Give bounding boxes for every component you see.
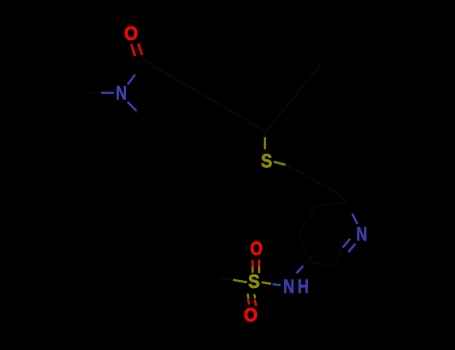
double bond C2=N line outer xyxy=(348,244,355,253)
bond N to lower-right methyl (blue half) xyxy=(128,102,137,111)
svg-text:O: O xyxy=(124,23,138,45)
S=O bottom double bond line 2 olive half xyxy=(254,294,255,298)
svg-text:N: N xyxy=(356,224,367,246)
svg-text:S: S xyxy=(261,150,272,172)
svg-text:N: N xyxy=(116,83,127,105)
bond N to left methyl (blue half) xyxy=(101,92,114,94)
bond S to methyl olive half xyxy=(233,280,247,282)
wire ghost S-CH2 to ring xyxy=(286,165,346,202)
wire ghost methyl stub halves xyxy=(88,93,314,266)
svg-text:H: H xyxy=(298,276,309,298)
C=O double bond line 1 xyxy=(131,44,135,56)
bond S up to CH2 (olive half) xyxy=(264,137,266,149)
wire ghost chain carbonyl-to-S vertex xyxy=(140,58,266,132)
bond NH to ring C3 (blue half) xyxy=(296,266,303,273)
S=O top double bond line 1 red half xyxy=(251,260,253,267)
C=O double bond line 2 xyxy=(138,44,142,56)
wire ghost chain S-vertex up-right xyxy=(266,64,321,132)
bond ring C4 to N (blue half, single) xyxy=(352,214,357,224)
svg-text:N: N xyxy=(283,276,294,298)
bond S to NH olive half xyxy=(262,282,272,284)
S=O bottom double bond line 1 red half xyxy=(248,299,249,305)
svg-text:O: O xyxy=(250,238,262,260)
bond S to NH blue half xyxy=(273,284,281,285)
S=O bottom double bond line 1 olive half xyxy=(246,294,249,299)
S=O bottom double bond line 2 red half xyxy=(255,300,256,306)
svg-text:O: O xyxy=(244,304,258,326)
svg-text:S: S xyxy=(248,271,260,293)
S=O top double bond line 2 red half xyxy=(258,260,260,267)
wire ghost S-methyl halves xyxy=(220,129,265,280)
wire ghost pyridine ring carbons xyxy=(298,203,347,267)
S=O top double bond line 1 olive half xyxy=(251,266,253,273)
double bond C2=N line inner xyxy=(343,239,350,248)
S=O top double bond line 2 olive half xyxy=(258,267,260,274)
bond S right to CH2 (olive half) xyxy=(274,162,286,165)
bond N to carbonyl C (blue half) xyxy=(128,75,135,85)
